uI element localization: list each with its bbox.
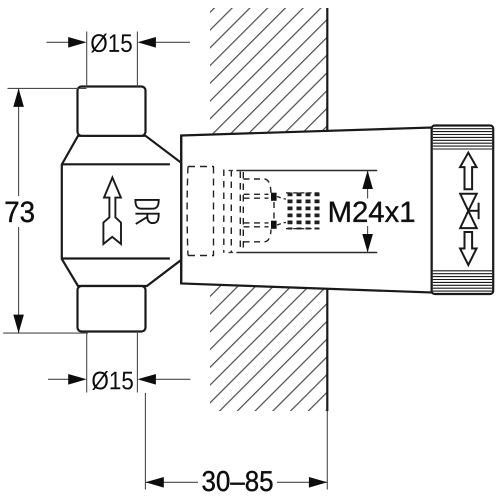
cap knurl top band	[433, 129, 492, 149]
cap symbol valve stem	[468, 210, 478, 212]
dim M24x1 label	[329, 199, 415, 225]
hidden thread dashed columns	[290, 193, 317, 230]
bore reference line top	[236, 170, 377, 172]
cone left edge redrawn	[180, 136, 182, 284]
dim bottom Ø15 arrow left	[68, 374, 86, 385]
wall hatching lower section	[210, 285, 327, 411]
dim 30-85 arrow right	[309, 477, 327, 488]
valve cone housing	[181, 128, 432, 293]
cap symbol up arrow	[460, 153, 477, 190]
dim bottom Ø15 label	[92, 371, 133, 390]
top connector block	[78, 87, 146, 136]
bottom pipe / extension line right	[136, 332, 138, 393]
dim 73 arrow up	[13, 88, 24, 107]
valve body hexagon	[62, 136, 181, 286]
dim M24x1 arrow down	[362, 234, 373, 253]
dim 73 reference line bottom	[3, 332, 88, 334]
wall hatching upper section	[210, 8, 327, 134]
dim top Ø15 tail left	[46, 41, 68, 43]
dim 73 arrow down	[13, 315, 24, 334]
flow direction arrow	[103, 178, 121, 245]
spindle neck dashed	[277, 197, 286, 226]
hidden cartridge cylinder dashed	[187, 167, 214, 256]
dim 30-85 line	[145, 481, 327, 483]
top pipe / extension line left	[86, 32, 88, 87]
dim top Ø15 tail right	[156, 41, 190, 43]
dim top Ø15 label	[91, 34, 132, 53]
dim 30-85 extension line left	[144, 393, 146, 490]
cap symbol valve bottom triangle	[460, 211, 477, 228]
dim 30-85 extension line right	[326, 411, 328, 490]
hidden inner body dashed	[244, 179, 275, 242]
dim M24x1 line lower	[367, 226, 369, 253]
dim top Ø15 arrow right	[138, 37, 156, 48]
bore line dashed lead-in	[229, 171, 237, 253]
dim 73 line	[18, 88, 20, 333]
thread top and bottom dashed edges	[286, 193, 321, 229]
dim 30-85 label	[198, 468, 277, 495]
body face top edge	[62, 163, 170, 165]
dim bottom Ø15 tail left	[48, 378, 68, 380]
bottom connector block	[78, 286, 146, 332]
cap symbol valve top triangle	[460, 194, 477, 211]
cap knurl bottom band	[433, 271, 492, 291]
body face bottom edge	[62, 257, 170, 259]
wall face edge lower	[326, 289, 328, 411]
bottom pipe / extension line left	[86, 332, 88, 393]
dim bottom Ø15 arrow right	[138, 374, 156, 385]
cap symbol down arrow	[460, 232, 477, 265]
hidden ring edges dashed	[224, 170, 244, 253]
dim 30-85 arrow left	[145, 477, 163, 488]
dim 73 label	[3, 196, 35, 227]
dim M24x1 arrow up	[362, 171, 373, 190]
seal ring top	[271, 193, 277, 201]
DR marking	[135, 200, 158, 224]
dim 73 reference line top	[8, 87, 87, 89]
seal ring bottom	[271, 221, 277, 229]
cap body	[432, 126, 494, 295]
dim M24x1 line upper	[367, 171, 369, 199]
bore reference line bottom	[236, 252, 377, 254]
top pipe / extension line right	[136, 32, 138, 87]
dim top Ø15 arrow left	[68, 37, 86, 48]
dim bottom Ø15 tail right	[156, 378, 191, 380]
wall face edge upper	[326, 8, 328, 131]
